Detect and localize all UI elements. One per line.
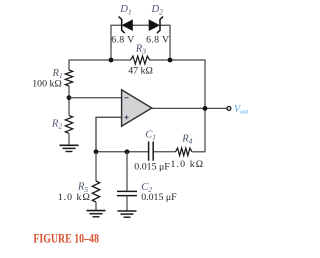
wire op-amp output to Vout terminal xyxy=(152,107,227,109)
svg-text:0.015 μF: 0.015 μF xyxy=(134,161,170,172)
node junction dot C2 top xyxy=(125,149,130,154)
wire top feedback rail left segment (y=60) xyxy=(69,59,131,61)
wire inverting input (node to op-amp minus) xyxy=(69,97,122,99)
wire R4 to right vertical xyxy=(192,151,205,153)
op-amp plus input sign xyxy=(125,115,129,119)
svg-text:47 kΩ: 47 kΩ xyxy=(128,66,153,77)
ground below R2 xyxy=(60,145,79,151)
capacitor C2 plates xyxy=(117,191,137,195)
wire right vertical (rail corner down through output node to R4) xyxy=(204,59,206,152)
resistor R2 zigzag xyxy=(65,115,72,133)
wire left branch vertical top (corner to R1) xyxy=(68,59,70,70)
zener diode D1 triangle (pointing left) xyxy=(122,20,132,31)
resistor R5 zigzag xyxy=(92,181,99,202)
node junction dot output node xyxy=(203,106,208,111)
wire R2 to ground stem xyxy=(68,133,70,145)
op-amp U1 triangle xyxy=(122,90,152,126)
node junction dot left diode leg on rail xyxy=(109,58,114,63)
capacitor C1 plates xyxy=(149,142,154,161)
svg-text:6.8 V: 6.8 V xyxy=(146,34,170,45)
node junction dot right diode leg on rail xyxy=(168,58,173,63)
svg-text:FIGURE 10–48: FIGURE 10–48 xyxy=(33,232,99,246)
wire top feedback rail right segment (y=60) xyxy=(150,59,205,61)
zener diode D2 triangle (pointing right) xyxy=(149,20,159,31)
node junction dot R1-R2 inverting node xyxy=(67,95,72,100)
svg-text:1.0 kΩ: 1.0 kΩ xyxy=(58,192,91,203)
resistor R4 zigzag (horizontal) xyxy=(176,148,192,156)
wire diode box left vertical xyxy=(110,25,112,60)
wire between R1 and R2 through inverting node xyxy=(68,86,70,115)
ground below C2 xyxy=(118,211,137,217)
svg-text:0.015 μF: 0.015 μF xyxy=(141,192,177,203)
zener diode D1 cathode bar with bent ends xyxy=(119,17,125,33)
zener diode D2 cathode bar with bent ends xyxy=(157,17,163,33)
wire diode box right vertical xyxy=(169,25,171,60)
wire C2 to ground stem xyxy=(126,196,128,211)
wire noninverting input (op-amp plus to lower node) xyxy=(96,117,122,152)
node junction dot lower-left (R5 top) xyxy=(94,149,99,154)
wire lower branch left segment (node to C1) xyxy=(96,151,148,153)
svg-text:1.0 kΩ: 1.0 kΩ xyxy=(171,159,205,170)
svg-text:100 kΩ: 100 kΩ xyxy=(32,78,62,89)
wire R5 to ground stem xyxy=(95,202,97,210)
resistor R3 zigzag (horizontal on rail) xyxy=(131,56,150,64)
resistor R1 zigzag xyxy=(65,70,72,86)
wire C2 stem from node xyxy=(126,152,128,191)
ground below R5 xyxy=(87,211,106,217)
svg-text:6.8 V: 6.8 V xyxy=(111,34,135,45)
op-amp minus input sign xyxy=(125,97,129,99)
wire R5 stem from node xyxy=(95,152,97,181)
wire between C1 and R4 xyxy=(154,151,176,153)
wire diode row segments (y=25.2) xyxy=(110,24,170,26)
terminal Vout open circle xyxy=(227,107,231,111)
